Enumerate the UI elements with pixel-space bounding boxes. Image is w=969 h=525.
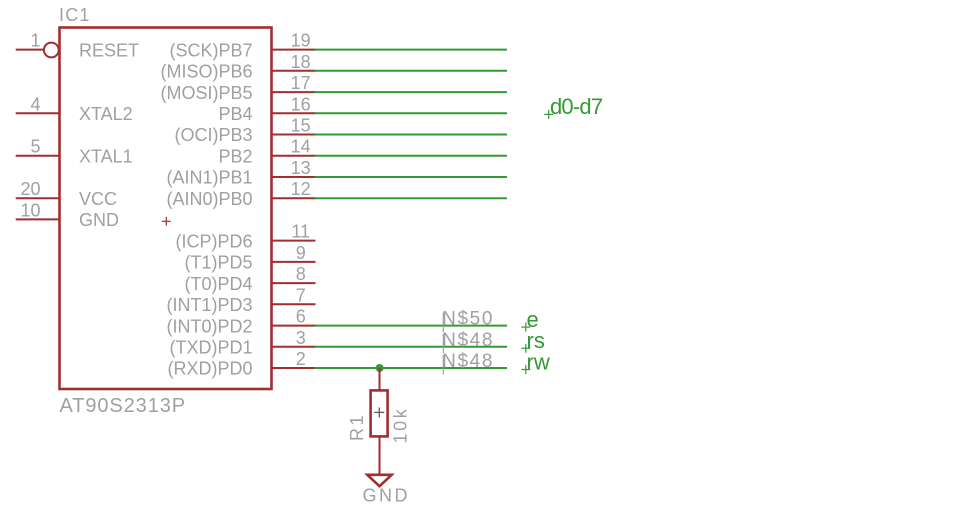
- svg-text:6: 6: [296, 307, 306, 327]
- svg-text:1: 1: [30, 31, 40, 51]
- pin 1 inversion bubble: [44, 43, 59, 58]
- pin 3 stub: [272, 346, 316, 348]
- svg-text:N$50: N$50: [442, 309, 494, 330]
- wire net from pin 6: [315, 325, 508, 327]
- pin 15 stub: [272, 134, 316, 136]
- svg-text:9: 9: [296, 243, 306, 263]
- junction on net rw: [376, 364, 384, 372]
- label d0-d7 origin cross: [544, 110, 553, 119]
- wire net from pin 3: [315, 346, 508, 348]
- wire net from pin 16: [315, 112, 508, 114]
- svg-text:5: 5: [30, 137, 40, 157]
- svg-text:AT90S2313P: AT90S2313P: [60, 395, 187, 417]
- svg-text:18: 18: [291, 52, 311, 72]
- svg-text:(INT0)PD2: (INT0)PD2: [166, 316, 252, 336]
- svg-text:7: 7: [296, 285, 306, 305]
- svg-text:RESET: RESET: [79, 40, 139, 60]
- svg-text:(T1)PD5: (T1)PD5: [184, 253, 252, 273]
- wire R1 to ground: [379, 436, 381, 476]
- net label origin tick: [442, 313, 444, 333]
- pin 17 stub: [272, 91, 316, 93]
- svg-text:PB4: PB4: [218, 104, 252, 124]
- svg-text:GND: GND: [79, 210, 119, 230]
- pin 11 stub: [272, 240, 316, 242]
- svg-text:d0-d7: d0-d7: [550, 94, 603, 119]
- svg-text:N$48: N$48: [442, 351, 494, 372]
- net label origin tick: [442, 334, 444, 354]
- svg-text:4: 4: [30, 94, 40, 114]
- svg-text:VCC: VCC: [79, 189, 117, 209]
- svg-text:19: 19: [291, 31, 311, 51]
- wire net from pin 18: [315, 70, 508, 72]
- svg-text:R1: R1: [347, 413, 367, 441]
- svg-text:10k: 10k: [391, 407, 411, 444]
- svg-text:(TXD)PD1: (TXD)PD1: [169, 338, 252, 358]
- svg-text:8: 8: [296, 264, 306, 284]
- wire net from pin 12: [315, 197, 508, 199]
- ground symbol triangle: [367, 475, 391, 486]
- svg-text:3: 3: [296, 328, 306, 348]
- net label origin tick: [442, 355, 444, 375]
- svg-text:17: 17: [291, 73, 311, 93]
- svg-text:10: 10: [20, 200, 40, 220]
- svg-text:2: 2: [296, 349, 306, 369]
- pin 5 wire: [16, 155, 60, 157]
- pin 4 wire: [16, 112, 60, 114]
- svg-text:12: 12: [291, 179, 311, 199]
- svg-text:(RXD)PD0: (RXD)PD0: [167, 359, 252, 379]
- svg-text:(SCK)PB7: (SCK)PB7: [169, 40, 252, 60]
- svg-text:20: 20: [20, 179, 40, 199]
- svg-text:11: 11: [291, 222, 310, 242]
- wire net from pin 13: [315, 176, 508, 178]
- pin 18 stub: [272, 70, 316, 72]
- pin 13 stub: [272, 176, 316, 178]
- pin 19 stub: [272, 49, 316, 51]
- svg-text:13: 13: [291, 158, 311, 178]
- svg-text:N$48: N$48: [442, 330, 494, 351]
- resistor R1 body: [371, 390, 388, 436]
- wire net from pin 14: [315, 155, 508, 157]
- pin 1 wire: [16, 49, 44, 51]
- svg-text:XTAL1: XTAL1: [79, 146, 133, 166]
- pin 16 stub: [272, 112, 316, 114]
- svg-text:PB2: PB2: [218, 146, 252, 166]
- label rw origin cross: [521, 365, 530, 374]
- svg-text:XTAL2: XTAL2: [79, 104, 133, 124]
- wire net from pin 19: [315, 49, 508, 51]
- wire net from pin 17: [315, 91, 508, 93]
- pin 6 stub: [272, 325, 316, 327]
- label e origin cross: [521, 323, 530, 332]
- svg-text:rw: rw: [527, 349, 550, 374]
- pin 10 wire: [16, 218, 60, 220]
- svg-text:(INT1)PD3: (INT1)PD3: [166, 295, 252, 315]
- svg-text:(OCI)PB3: (OCI)PB3: [174, 125, 252, 145]
- pin 9 stub: [272, 261, 316, 263]
- svg-text:GND: GND: [363, 486, 411, 506]
- wire junction to R1: [379, 368, 381, 391]
- svg-text:14: 14: [291, 137, 311, 157]
- pin 20 wire: [16, 197, 60, 199]
- svg-text:(AIN1)PB1: (AIN1)PB1: [166, 168, 252, 188]
- pin 8 stub: [272, 282, 316, 284]
- wire net from pin 15: [315, 134, 508, 136]
- label rs origin cross: [521, 344, 530, 353]
- svg-text:(ICP)PD6: (ICP)PD6: [175, 231, 252, 251]
- svg-text:(T0)PD4: (T0)PD4: [184, 274, 252, 294]
- IC IC1 body rectangle: [60, 28, 272, 390]
- svg-text:(MISO)PB6: (MISO)PB6: [160, 62, 252, 82]
- pin 12 stub: [272, 197, 316, 199]
- IC1 origin cross: [162, 217, 171, 226]
- pin 14 stub: [272, 155, 316, 157]
- svg-text:16: 16: [291, 94, 311, 114]
- svg-text:15: 15: [291, 116, 311, 136]
- svg-text:IC1: IC1: [59, 5, 91, 25]
- svg-text:(AIN0)PB0: (AIN0)PB0: [166, 189, 252, 209]
- wire net from pin 2: [315, 367, 508, 369]
- pin 7 stub: [272, 303, 316, 305]
- pin 2 stub: [272, 367, 316, 369]
- svg-text:(MOSI)PB5: (MOSI)PB5: [160, 83, 252, 103]
- resistor R1 origin cross: [374, 407, 384, 417]
